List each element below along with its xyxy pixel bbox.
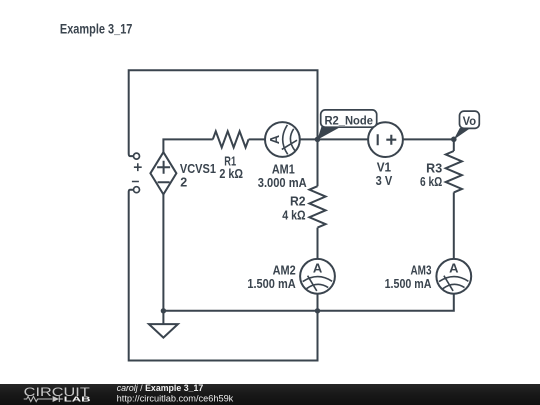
svg-text:VCVS1: VCVS1 <box>180 162 216 176</box>
svg-text:1.500 mA: 1.500 mA <box>247 277 295 291</box>
svg-text:R2_Node: R2_Node <box>324 113 373 127</box>
svg-text:R2: R2 <box>290 195 306 209</box>
svg-text:R3: R3 <box>426 162 442 176</box>
svg-text:carolj / Example 3_17: carolj / Example 3_17 <box>117 383 204 393</box>
svg-text:AM3: AM3 <box>411 263 432 277</box>
svg-text:Example 3_17: Example 3_17 <box>60 21 132 36</box>
svg-text:2 kΩ: 2 kΩ <box>219 167 243 181</box>
svg-text:2: 2 <box>180 176 187 190</box>
svg-text:6 kΩ: 6 kΩ <box>420 175 442 189</box>
svg-text:Vo: Vo <box>463 114 477 128</box>
svg-text:1.500 mA: 1.500 mA <box>385 277 432 291</box>
svg-text:http://circuitlab.com/ce6h59k: http://circuitlab.com/ce6h59k <box>117 393 234 403</box>
svg-text:3.000 mA: 3.000 mA <box>258 176 307 190</box>
svg-text:LAB: LAB <box>64 395 92 404</box>
svg-text:AM1: AM1 <box>272 163 295 177</box>
svg-text:V1: V1 <box>377 161 391 175</box>
svg-text:4 kΩ: 4 kΩ <box>282 209 305 223</box>
svg-text:AM2: AM2 <box>273 263 296 277</box>
svg-text:3 V: 3 V <box>376 174 393 188</box>
